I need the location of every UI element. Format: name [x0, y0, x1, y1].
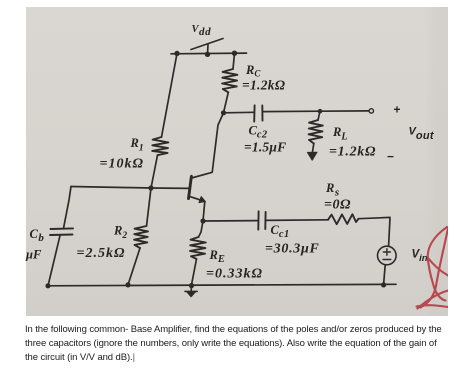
capacitor Cc2 — [254, 105, 262, 121]
capacitor Cb — [50, 228, 73, 235]
resistor Rc — [222, 69, 237, 92]
capacitor Cc1 — [258, 211, 265, 229]
node dot bottom-left — [45, 283, 50, 288]
resistor R1 — [152, 137, 168, 155]
wire collector node to transistor — [192, 113, 224, 178]
wire R2 to bottom rail — [128, 248, 140, 285]
wire R1 to base node — [151, 155, 158, 188]
wire Rc to collector node — [224, 92, 229, 113]
svg-text:=0.33kΩ: =0.33kΩ — [206, 267, 263, 282]
wire Vin bottom to rail — [384, 265, 386, 285]
wire RE to ground node — [192, 259, 197, 285]
svg-text:=10kΩ: =10kΩ — [100, 157, 144, 172]
svg-text:=1.2kΩ: =1.2kΩ — [242, 78, 285, 93]
wire Rs to Vin top — [359, 217, 391, 246]
wire bottom rail — [48, 284, 396, 286]
node dot Vin-bottom — [381, 282, 386, 287]
wire rail to Rc — [233, 53, 235, 69]
node dot emitter — [200, 218, 205, 223]
wire emitter to node E — [203, 202, 205, 222]
resistor RL — [309, 120, 323, 144]
ground symbol main — [185, 286, 197, 291]
svg-text:μF: μF — [25, 248, 42, 262]
resistor R2 — [134, 226, 148, 248]
resistor RE — [190, 237, 206, 259]
wire node E to Cc1 — [203, 220, 258, 222]
wire base node to R2 — [147, 188, 152, 226]
wire base rail corner down to Cb — [64, 187, 72, 229]
wire left branch top (rail to R1) — [162, 54, 178, 138]
node dot collector — [221, 110, 226, 115]
wire top rail — [171, 52, 247, 55]
svg-text:+: + — [394, 103, 401, 117]
wire Cb to bottom-left corner — [48, 236, 60, 286]
node dot base — [148, 185, 153, 190]
node dot R2-bottom — [125, 282, 130, 287]
svg-text:=30.3μF: =30.3μF — [265, 242, 320, 257]
svg-text:=0Ω: =0Ω — [324, 198, 351, 213]
transistor Q1 emitter with arrow — [189, 196, 205, 201]
svg-text:=2.5kΩ: =2.5kΩ — [77, 246, 126, 261]
node dot RL-top — [318, 109, 323, 114]
svg-text:=1.2kΩ: =1.2kΩ — [329, 145, 376, 160]
transistor Q1 base bar — [189, 176, 192, 198]
node dot rail-vdd — [205, 52, 210, 57]
wire Cc1 to Rs — [266, 219, 329, 222]
wire Cc2 to output — [263, 110, 369, 113]
ground symbol RL — [307, 152, 317, 160]
node dot rail-right — [232, 51, 237, 56]
node dot ground — [189, 283, 194, 288]
power Vdd symbol — [191, 39, 223, 55]
question text — [25, 323, 465, 365]
svg-text:−: − — [387, 150, 394, 164]
wire RL to ground — [312, 144, 313, 153]
resistor Rs — [328, 214, 359, 224]
wire base rail — [71, 187, 189, 189]
svg-text:=1.5μF: =1.5μF — [244, 140, 286, 155]
annotation red pen scribble — [417, 227, 449, 309]
wire collector node to Cc2 — [224, 111, 255, 114]
node dot rail-left — [174, 51, 179, 56]
photo background — [26, 7, 448, 316]
terminal Vout open circle — [369, 109, 373, 113]
wire RL top — [318, 111, 320, 120]
wire node E to RE — [199, 221, 204, 237]
source Vin — [378, 246, 397, 265]
